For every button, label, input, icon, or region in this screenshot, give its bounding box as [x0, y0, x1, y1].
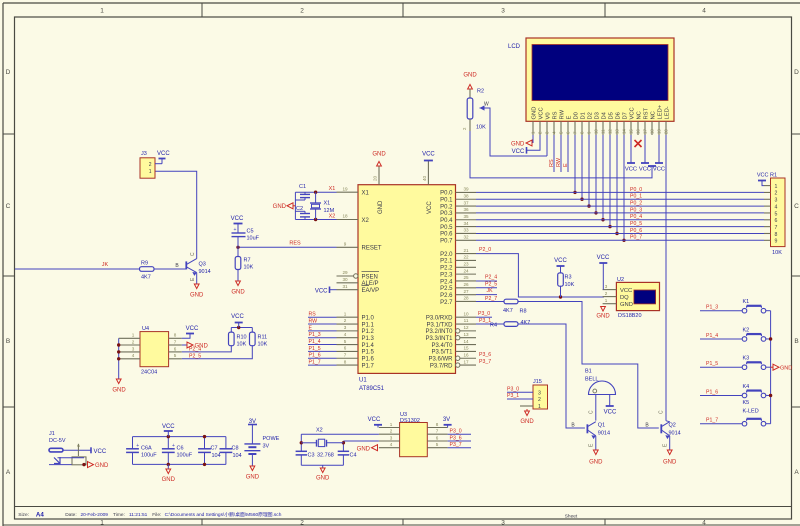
svg-text:13: 13: [463, 332, 469, 337]
svg-text:3: 3: [538, 390, 541, 396]
svg-text:P3_0: P3_0: [450, 429, 462, 435]
svg-text:20-Feb-2009: 20-Feb-2009: [81, 512, 109, 518]
svg-text:D4: D4: [602, 111, 608, 119]
svg-text:P2.7: P2.7: [440, 300, 453, 306]
svg-text:17: 17: [463, 359, 469, 364]
svg-text:X1: X1: [329, 186, 336, 192]
svg-text:D5: D5: [609, 112, 615, 119]
svg-text:19: 19: [342, 186, 348, 191]
svg-text:17: 17: [643, 129, 648, 134]
svg-text:P2.1: P2.1: [440, 259, 453, 265]
svg-text:P0.6: P0.6: [440, 232, 453, 238]
svg-text:A: A: [6, 469, 11, 476]
svg-text:GND: GND: [162, 477, 176, 483]
svg-text:P1_4: P1_4: [309, 339, 321, 345]
svg-text:9014: 9014: [199, 269, 211, 275]
svg-text:10K: 10K: [476, 125, 486, 131]
svg-text:VCC: VCC: [630, 107, 636, 119]
svg-text:P3.5/T1: P3.5/T1: [431, 350, 453, 356]
svg-text:RS: RS: [309, 312, 317, 318]
svg-text:C3: C3: [308, 453, 315, 459]
svg-text:GND: GND: [620, 302, 633, 308]
svg-text:2: 2: [149, 162, 152, 168]
svg-text:P2.5: P2.5: [440, 286, 453, 292]
svg-text:1: 1: [775, 184, 778, 190]
svg-text:16: 16: [636, 129, 641, 134]
svg-text:P1.3: P1.3: [362, 336, 375, 342]
svg-text:VCC: VCC: [625, 167, 637, 173]
svg-text:10uF: 10uF: [247, 236, 260, 242]
svg-text:4: 4: [390, 442, 393, 447]
svg-text:33: 33: [463, 228, 469, 233]
svg-text:VCC: VCC: [94, 449, 107, 455]
svg-text:GND: GND: [663, 460, 677, 466]
svg-text:RES: RES: [289, 241, 301, 247]
svg-text:P1_3: P1_3: [706, 305, 718, 311]
svg-text:GND: GND: [463, 73, 477, 79]
svg-text:J1: J1: [49, 431, 55, 437]
svg-text:5: 5: [344, 339, 347, 344]
svg-text:LED+: LED+: [658, 104, 664, 119]
svg-text:DS18B20: DS18B20: [618, 313, 642, 319]
svg-text:C1: C1: [299, 184, 306, 190]
svg-text:P1_6: P1_6: [706, 389, 718, 395]
svg-text:39: 39: [463, 187, 469, 192]
svg-text:2: 2: [300, 520, 304, 526]
svg-text:18: 18: [342, 214, 348, 219]
svg-text:GND: GND: [532, 107, 538, 120]
svg-text:3: 3: [344, 325, 347, 330]
svg-text:5: 5: [775, 211, 778, 217]
svg-text:29: 29: [342, 270, 348, 275]
svg-text:DQ: DQ: [620, 295, 629, 301]
svg-text:C: C: [589, 410, 595, 414]
svg-text:26: 26: [463, 282, 469, 287]
svg-text:37: 37: [463, 200, 469, 205]
svg-text:14: 14: [622, 129, 627, 134]
svg-text:1: 1: [100, 8, 104, 15]
svg-text:DS1302: DS1302: [400, 418, 420, 424]
svg-text:38: 38: [463, 193, 469, 198]
svg-text:GND: GND: [316, 476, 330, 482]
svg-text:C:\Documents and Settings\小鹏\桌: C:\Documents and Settings\小鹏\桌面\M560原理图.…: [165, 511, 282, 518]
svg-text:VCC: VCC: [757, 173, 769, 179]
svg-text:P2.0: P2.0: [440, 252, 453, 258]
svg-text:VCC: VCC: [597, 255, 610, 261]
svg-text:1: 1: [538, 404, 541, 410]
svg-text:P3.1/TXD: P3.1/TXD: [426, 322, 453, 328]
svg-text:3: 3: [501, 520, 505, 526]
svg-text:7: 7: [775, 225, 778, 231]
svg-text:VCC: VCC: [639, 167, 651, 173]
svg-text:C6: C6: [177, 446, 184, 452]
svg-text:LED-: LED-: [665, 106, 671, 119]
svg-text:C7: C7: [211, 446, 218, 452]
svg-text:X2: X2: [329, 213, 336, 219]
svg-text:7: 7: [436, 429, 439, 434]
svg-text:NC: NC: [651, 111, 657, 119]
svg-text:34: 34: [463, 221, 469, 226]
svg-text:P0_4: P0_4: [630, 214, 642, 220]
svg-text:P1_3: P1_3: [309, 332, 321, 338]
svg-text:P0.7: P0.7: [440, 239, 453, 245]
svg-text:R4: R4: [490, 323, 497, 329]
svg-text:10K: 10K: [565, 282, 575, 288]
svg-text:18: 18: [650, 129, 655, 134]
svg-text:D7: D7: [623, 112, 629, 119]
svg-text:V0: V0: [546, 112, 552, 119]
svg-text:P0.5: P0.5: [440, 225, 453, 231]
svg-text:D2: D2: [588, 112, 594, 119]
svg-text:GND: GND: [372, 152, 386, 158]
svg-text:Q1: Q1: [598, 423, 605, 429]
svg-text:P2.6: P2.6: [440, 293, 453, 299]
svg-text:P0_5: P0_5: [630, 221, 642, 227]
svg-text:P1.7: P1.7: [362, 363, 375, 369]
svg-text:B1: B1: [585, 369, 592, 375]
svg-text:25: 25: [463, 275, 469, 280]
svg-text:C: C: [659, 410, 665, 414]
svg-text:U1: U1: [359, 378, 367, 384]
svg-text:22: 22: [463, 255, 469, 260]
svg-text:3V: 3V: [263, 444, 270, 450]
svg-text:GND: GND: [511, 142, 525, 148]
svg-text:1: 1: [100, 520, 104, 526]
svg-text:P0_2: P0_2: [630, 200, 642, 206]
svg-text:Time:: Time:: [113, 512, 125, 518]
svg-text:27: 27: [463, 289, 469, 294]
svg-text:X2: X2: [362, 218, 370, 224]
svg-text:P2_4: P2_4: [485, 275, 497, 281]
svg-text:P3_6: P3_6: [479, 352, 491, 358]
svg-text:10K: 10K: [237, 342, 247, 348]
svg-text:24: 24: [463, 268, 469, 273]
svg-text:P1.1: P1.1: [362, 322, 375, 328]
svg-text:VCC: VCC: [422, 152, 435, 158]
svg-text:P3.6/WR: P3.6/WR: [428, 357, 453, 363]
svg-text:RS: RS: [553, 111, 559, 119]
svg-text:U4: U4: [142, 326, 149, 332]
svg-text:C5: C5: [247, 229, 254, 235]
svg-text:11: 11: [601, 129, 606, 134]
svg-text:3: 3: [501, 8, 505, 15]
svg-text:GND: GND: [246, 475, 260, 481]
svg-text:P2.2: P2.2: [440, 266, 453, 272]
svg-text:10K: 10K: [772, 250, 782, 256]
svg-text:36: 36: [463, 207, 469, 212]
svg-text:E: E: [567, 116, 573, 120]
svg-text:P3_0: P3_0: [507, 386, 519, 392]
svg-text:U3: U3: [400, 412, 407, 418]
svg-text:VCC: VCC: [554, 258, 567, 264]
svg-text:9: 9: [344, 242, 347, 247]
svg-text:K-LED: K-LED: [743, 409, 759, 415]
svg-text:GND: GND: [596, 314, 610, 320]
svg-text:R10: R10: [237, 335, 247, 341]
svg-text:11:21:51: 11:21:51: [129, 512, 148, 518]
svg-text:5: 5: [174, 353, 177, 358]
svg-text:P1_5: P1_5: [309, 346, 321, 352]
svg-text:P1.6: P1.6: [362, 357, 375, 363]
svg-text:104: 104: [233, 453, 242, 459]
svg-text:31: 31: [342, 284, 348, 289]
svg-text:VCC: VCC: [539, 107, 545, 119]
svg-text:R11: R11: [258, 335, 268, 341]
svg-text:P3.3/INT1: P3.3/INT1: [425, 336, 453, 342]
svg-text:2: 2: [344, 318, 347, 323]
svg-text:3: 3: [132, 346, 135, 351]
svg-text:2: 2: [300, 8, 304, 15]
svg-text:1: 1: [132, 333, 135, 338]
svg-text:3: 3: [390, 435, 393, 440]
svg-text:4K7: 4K7: [141, 275, 151, 281]
svg-text:B: B: [6, 338, 10, 345]
svg-text:P1.4: P1.4: [362, 343, 375, 349]
svg-text:7: 7: [174, 339, 177, 344]
svg-text:12: 12: [608, 129, 613, 134]
svg-text:C: C: [794, 203, 799, 210]
svg-text:ALE/P: ALE/P: [362, 281, 379, 287]
svg-text:GND: GND: [357, 446, 371, 452]
svg-text:P3.7/RD: P3.7/RD: [430, 363, 453, 369]
svg-text:Q2: Q2: [669, 423, 676, 429]
svg-text:P3.0/RXD: P3.0/RXD: [426, 316, 453, 322]
svg-text:VCC: VCC: [231, 314, 244, 320]
svg-text:R1: R1: [770, 173, 777, 179]
svg-text:B: B: [794, 338, 798, 345]
svg-text:4: 4: [132, 353, 135, 358]
svg-text:10: 10: [594, 129, 599, 134]
svg-text:P0_0: P0_0: [630, 187, 642, 193]
svg-text:GND: GND: [780, 365, 792, 371]
svg-text:JK: JK: [487, 288, 494, 294]
svg-text:P2.4: P2.4: [440, 279, 453, 285]
svg-text:VCC: VCC: [653, 167, 665, 173]
svg-text:P0.1: P0.1: [440, 198, 453, 204]
svg-text:P1_7: P1_7: [309, 359, 321, 365]
svg-text:RS: RS: [549, 159, 555, 167]
svg-text:C6A: C6A: [141, 446, 152, 452]
svg-text:VCC: VCC: [368, 417, 381, 423]
svg-text:P0.0: P0.0: [440, 191, 453, 197]
svg-text:VCC: VCC: [231, 216, 244, 222]
svg-text:20: 20: [373, 175, 378, 181]
svg-text:VCC: VCC: [604, 410, 617, 416]
svg-text:9014: 9014: [598, 430, 610, 436]
svg-text:P1_7: P1_7: [706, 418, 718, 424]
svg-text:X2: X2: [316, 428, 323, 434]
svg-text:30: 30: [342, 277, 348, 282]
svg-text:Date:: Date:: [65, 512, 76, 518]
svg-text:+: +: [172, 443, 175, 449]
svg-text:P2_4: P2_4: [189, 347, 201, 353]
svg-text:15: 15: [629, 129, 634, 134]
svg-text:4K7: 4K7: [503, 308, 513, 314]
svg-text:D6: D6: [616, 112, 622, 119]
svg-text:P0_7: P0_7: [630, 235, 642, 241]
svg-text:X1: X1: [324, 201, 331, 207]
svg-text:J15: J15: [533, 379, 542, 385]
svg-text:E: E: [309, 325, 313, 331]
svg-text:23: 23: [463, 261, 469, 266]
svg-text:D0: D0: [574, 112, 580, 119]
svg-text:C: C: [190, 252, 196, 256]
svg-text:32.768: 32.768: [317, 453, 334, 459]
svg-text:Sheet: Sheet: [565, 514, 578, 520]
svg-text:U2: U2: [617, 277, 624, 283]
svg-text:+: +: [136, 443, 139, 449]
svg-text:K5: K5: [743, 400, 750, 406]
svg-text:40: 40: [422, 175, 427, 181]
svg-text:PSEN: PSEN: [362, 274, 378, 280]
svg-text:P1.2: P1.2: [362, 329, 375, 335]
svg-text:File:: File:: [152, 512, 161, 518]
svg-text:C: C: [6, 203, 11, 210]
svg-text:D1: D1: [581, 112, 587, 119]
svg-text:P0_3: P0_3: [630, 207, 642, 213]
svg-text:1: 1: [149, 169, 152, 175]
svg-text:9: 9: [775, 239, 778, 245]
svg-text:21: 21: [463, 248, 469, 253]
svg-text:GND: GND: [190, 293, 204, 299]
svg-text:4: 4: [702, 520, 706, 526]
svg-text:POWE: POWE: [263, 436, 280, 442]
svg-text:1: 1: [605, 298, 608, 303]
svg-text:GND: GND: [273, 204, 287, 210]
svg-text:X1: X1: [362, 191, 370, 197]
svg-text:AT89C51: AT89C51: [359, 386, 385, 392]
svg-text:K4: K4: [743, 384, 750, 390]
svg-text:P3_7: P3_7: [479, 359, 491, 365]
svg-text:13: 13: [615, 129, 620, 134]
svg-text:K1: K1: [743, 299, 750, 305]
svg-text:24C04: 24C04: [141, 370, 157, 376]
svg-text:P1_6: P1_6: [309, 353, 321, 359]
svg-text:EA/VP: EA/VP: [362, 288, 380, 294]
svg-text:JK: JK: [102, 262, 109, 268]
svg-text:10: 10: [463, 311, 469, 316]
svg-text:104: 104: [212, 453, 221, 459]
svg-text:VCC: VCC: [427, 201, 433, 214]
svg-text:Q3: Q3: [199, 262, 206, 268]
svg-text:VCC: VCC: [315, 288, 328, 294]
svg-text:P0.2: P0.2: [440, 204, 453, 210]
svg-text:R3: R3: [565, 275, 572, 281]
svg-text:P0.3: P0.3: [440, 211, 453, 217]
svg-text:D: D: [6, 69, 11, 76]
svg-text:28: 28: [463, 296, 469, 301]
svg-text:C8: C8: [232, 446, 239, 452]
svg-text:1: 1: [344, 311, 347, 316]
svg-text:GND: GND: [95, 463, 109, 469]
svg-text:2: 2: [390, 429, 393, 434]
svg-text:5: 5: [436, 442, 439, 447]
svg-text:LCD: LCD: [508, 44, 521, 50]
svg-text:P3_7: P3_7: [450, 442, 462, 448]
svg-text:4: 4: [702, 8, 706, 15]
svg-text:6: 6: [344, 346, 347, 351]
svg-text:P3.4/T0: P3.4/T0: [431, 343, 453, 349]
svg-text:W: W: [484, 102, 489, 108]
svg-text:15: 15: [463, 346, 469, 351]
svg-text:10K: 10K: [244, 265, 254, 271]
svg-text:RST: RST: [644, 107, 650, 119]
svg-text:VCC: VCC: [157, 151, 170, 157]
svg-text:P0_1: P0_1: [630, 194, 642, 200]
svg-text:C4: C4: [350, 453, 357, 459]
svg-text:P2.3: P2.3: [440, 272, 453, 278]
svg-text:P2_5: P2_5: [189, 354, 201, 360]
svg-text:Size:: Size:: [18, 512, 29, 518]
svg-text:P2_0: P2_0: [479, 247, 491, 253]
svg-text:12M: 12M: [324, 208, 335, 214]
svg-text:4: 4: [344, 332, 347, 337]
svg-text:GND: GND: [112, 388, 126, 394]
svg-text:12: 12: [463, 325, 469, 330]
svg-text:10K: 10K: [258, 342, 268, 348]
svg-text:VCC: VCC: [620, 288, 632, 294]
svg-text:VCC: VCC: [512, 149, 525, 155]
svg-text:P3.2/INT0: P3.2/INT0: [425, 329, 453, 335]
svg-text:R8: R8: [520, 309, 527, 315]
svg-text:DC-5V: DC-5V: [49, 438, 66, 444]
svg-text:RW: RW: [309, 318, 318, 324]
svg-text:A: A: [794, 469, 799, 476]
svg-text:R2: R2: [477, 89, 484, 95]
svg-text:RESET: RESET: [362, 246, 382, 252]
svg-text:P3_1: P3_1: [507, 393, 519, 399]
svg-text:NC: NC: [637, 111, 643, 119]
svg-text:E: E: [563, 163, 569, 167]
svg-text:D3: D3: [595, 112, 601, 119]
svg-text:GND: GND: [520, 419, 534, 425]
svg-text:R7: R7: [244, 258, 251, 264]
svg-text:35: 35: [463, 214, 469, 219]
svg-text:2: 2: [605, 291, 608, 296]
svg-text:+: +: [234, 227, 237, 233]
svg-text:2: 2: [775, 191, 778, 197]
svg-text:K2: K2: [743, 327, 750, 333]
svg-text:P1.0: P1.0: [362, 316, 375, 322]
svg-text:D: D: [794, 69, 799, 76]
svg-text:8: 8: [436, 422, 439, 427]
svg-text:P0.4: P0.4: [440, 218, 453, 224]
svg-text:100uF: 100uF: [141, 453, 157, 459]
svg-text:9014: 9014: [669, 430, 681, 436]
svg-text:1: 1: [390, 422, 393, 427]
svg-text:P1_4: P1_4: [706, 333, 718, 339]
svg-text:8: 8: [775, 232, 778, 238]
svg-text:8: 8: [344, 359, 347, 364]
svg-text:GND: GND: [231, 290, 245, 296]
svg-text:GND: GND: [589, 460, 603, 466]
svg-text:3V: 3V: [443, 417, 450, 423]
svg-text:6: 6: [174, 346, 177, 351]
svg-text:6: 6: [436, 435, 439, 440]
svg-text:32: 32: [463, 234, 469, 239]
svg-text:7: 7: [344, 352, 347, 357]
svg-text:RW: RW: [556, 157, 562, 167]
svg-text:P3_0: P3_0: [478, 311, 490, 317]
svg-text:4: 4: [775, 204, 778, 210]
svg-text:RW: RW: [560, 109, 566, 119]
svg-text:P1.5: P1.5: [362, 350, 375, 356]
svg-text:4K7: 4K7: [521, 320, 531, 326]
svg-text:P2_7: P2_7: [485, 296, 497, 302]
svg-text:R9: R9: [141, 261, 148, 267]
svg-text:2: 2: [132, 339, 135, 344]
svg-text:GND: GND: [378, 200, 384, 214]
